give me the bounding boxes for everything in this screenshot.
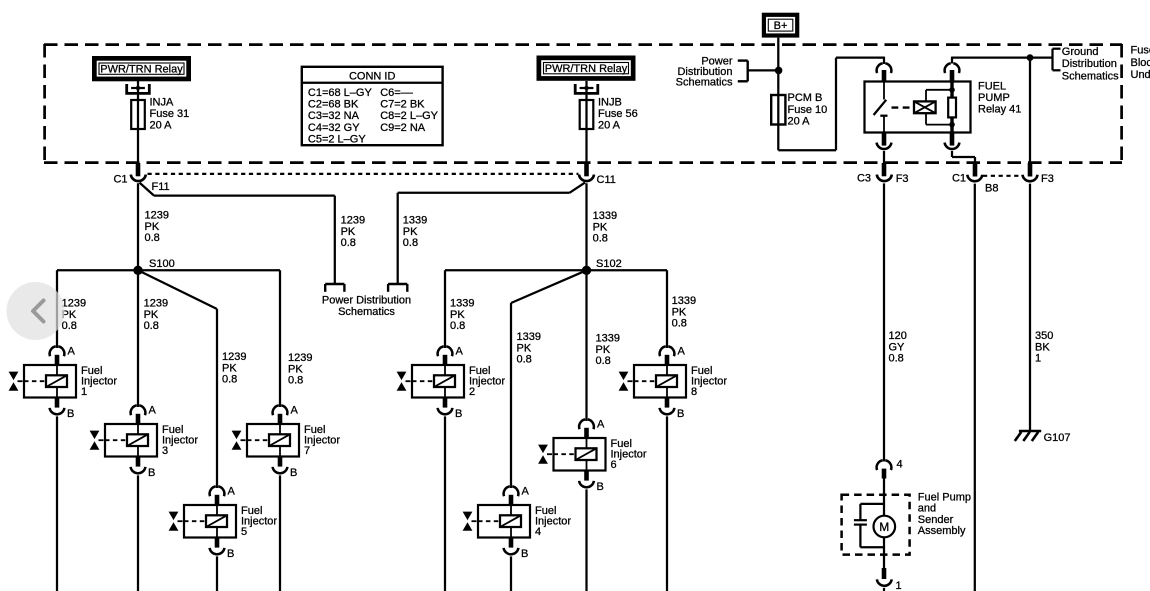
wire tap down to terminal (1339): [397, 193, 399, 284]
node: ground distribution tap: [1027, 54, 1034, 61]
svg-text:BK: BK: [1035, 341, 1050, 353]
relay pin87 stub: [950, 70, 955, 82]
svg-text:0.8: 0.8: [403, 237, 418, 249]
connector C1/F11 arc: [131, 175, 146, 182]
fuel injector 6: [538, 419, 647, 494]
svg-text:0.8: 0.8: [288, 375, 303, 387]
svg-text:1239: 1239: [144, 298, 168, 310]
svg-text:S100: S100: [149, 258, 175, 270]
svg-text:0.8: 0.8: [145, 232, 160, 244]
relay pin30 stub (bottom-left): [882, 133, 887, 146]
svg-text:C4=32 GY: C4=32 GY: [308, 122, 360, 134]
svg-text:6: 6: [611, 459, 617, 471]
svg-text:B: B: [455, 408, 462, 420]
label C11: [597, 174, 616, 186]
wire C1/B8 down to bottom: [974, 184, 976, 591]
svg-text:A: A: [597, 419, 605, 431]
label 1: [896, 580, 902, 591]
pump connector 1 stub: [882, 568, 887, 579]
svg-text:CONN ID: CONN ID: [349, 71, 396, 83]
fuel injector 7: [232, 405, 341, 480]
svg-text:0.8: 0.8: [450, 320, 465, 332]
fuse INJA Fuse 31 holder+body: [127, 84, 150, 129]
svg-text:1239: 1239: [222, 351, 246, 363]
svg-text:Fuse 10: Fuse 10: [788, 104, 828, 116]
svg-text:Fuel Pump: Fuel Pump: [918, 492, 971, 504]
fuse block dashed outline (left): [43, 44, 46, 163]
label wire 1339 PK 0.8 (tap): [403, 215, 427, 249]
label INJA Fuse 31: [150, 97, 190, 132]
wire pin85 jog to C1: [952, 151, 975, 164]
svg-text:B: B: [227, 548, 234, 560]
connector C11 arc: [579, 175, 594, 182]
wire S102 down (injector 6): [585, 270, 587, 419]
connector C3/F3 stub: [882, 163, 887, 176]
svg-text:PCM B: PCM B: [788, 92, 823, 104]
B+ terminal box: [762, 13, 800, 38]
fuse block dashed outline (top): [44, 43, 1122, 46]
relay FUEL PUMP Relay 41 box: [865, 82, 971, 133]
svg-text:PK: PK: [450, 309, 465, 321]
svg-text:C7=2 BK: C7=2 BK: [380, 99, 425, 111]
wire S102 diagonal branch: [511, 270, 587, 486]
label wire 1239 PK 0.8 (C1 main): [145, 210, 169, 244]
label G107: [1044, 432, 1071, 444]
svg-text:C1=68 L–GY: C1=68 L–GY: [308, 87, 373, 99]
svg-text:5: 5: [241, 526, 247, 538]
splice S100: [133, 266, 142, 275]
node: power distribution tap: [775, 67, 783, 75]
svg-text:1239: 1239: [62, 298, 86, 310]
svg-text:C6=––: C6=––: [380, 87, 414, 99]
svg-text:0.8: 0.8: [144, 320, 159, 332]
svg-text:1239: 1239: [341, 215, 365, 227]
connector C3/F3 arc: [877, 175, 892, 182]
svg-text:Fuse: Fuse: [1131, 45, 1150, 57]
wire C11 to S102: [585, 183, 587, 270]
wire below injector 3: [137, 475, 139, 591]
svg-text:Schematics: Schematics: [338, 306, 395, 318]
svg-text:7: 7: [304, 445, 310, 457]
svg-text:1339: 1339: [596, 333, 620, 345]
label: Power Distribution Schematics (left): [676, 55, 733, 88]
svg-text:Relay 41: Relay 41: [978, 103, 1021, 115]
wire ground distribution down: [1029, 58, 1031, 164]
svg-text:B8: B8: [985, 182, 998, 194]
svg-text:A: A: [149, 405, 157, 417]
svg-text:PK: PK: [403, 226, 418, 238]
svg-text:PUMP: PUMP: [978, 92, 1010, 104]
svg-text:S102: S102: [596, 258, 622, 270]
wire S102 right branch: [587, 270, 668, 346]
PWR/TRN Relay box (left): [92, 56, 191, 81]
svg-text:PK: PK: [145, 221, 160, 233]
pump motor: [874, 516, 896, 538]
wire below injector 5: [216, 556, 218, 591]
svg-text:and: and: [918, 503, 936, 515]
wire relay top-right to ground distribution: [952, 57, 1053, 64]
wire below pump connector 1: [883, 588, 885, 591]
svg-text:PK: PK: [341, 226, 356, 238]
wire relay2 to fuse INJB: [585, 81, 587, 164]
svg-text:A: A: [228, 486, 236, 498]
svg-text:1339: 1339: [672, 295, 696, 307]
svg-text:A: A: [522, 486, 530, 498]
label 4: [897, 458, 903, 470]
label wire 1339 (inj8): [672, 295, 696, 329]
relay pin87 feed arc: [945, 63, 960, 73]
relay coil loop wires: [926, 87, 955, 127]
svg-text:M: M: [879, 520, 889, 534]
fuel injector 4: [463, 486, 572, 561]
relay FUEL PUMP Relay 41 coil-side feed arc: [877, 63, 892, 73]
pump connector 1 arc: [877, 579, 892, 585]
svg-text:C5=2 L–GY: C5=2 L–GY: [308, 133, 366, 145]
svg-text:1: 1: [896, 580, 902, 591]
label C1 (relay control): [952, 172, 966, 184]
label F3 (ground): [1041, 173, 1054, 185]
wire below injector 8: [666, 416, 668, 591]
svg-text:8: 8: [691, 386, 697, 398]
connector F3 (ground) arc: [1022, 175, 1037, 182]
svg-text:GY: GY: [889, 341, 906, 353]
svg-text:0.8: 0.8: [341, 237, 356, 249]
fuel injector 5: [169, 486, 278, 561]
svg-text:PWR/TRN Relay: PWR/TRN Relay: [545, 63, 628, 75]
label wire 120 GY 0.8: [889, 330, 907, 364]
svg-text:Assembly: Assembly: [918, 525, 966, 537]
svg-text:4: 4: [897, 458, 903, 470]
label wire 1339 (inj4): [517, 331, 541, 365]
svg-text:1339: 1339: [517, 331, 541, 343]
svg-text:F11: F11: [152, 181, 170, 193]
terminal cup (1339 power dist): [388, 284, 407, 292]
relay pin30 connector arc: [877, 143, 892, 149]
pump connector 4 arc: [877, 460, 892, 470]
svg-text:1339: 1339: [403, 215, 427, 227]
svg-text:1339: 1339: [593, 210, 617, 222]
svg-text:C11: C11: [597, 174, 616, 186]
ground distribution schematics bracket: [1053, 49, 1061, 71]
relay switch: [874, 82, 888, 132]
wire C1 to S100: [137, 183, 139, 270]
wire F3 to G107: [1029, 184, 1031, 430]
svg-text:0.8: 0.8: [593, 233, 608, 245]
wire below injector 2: [444, 416, 446, 591]
wire C11 tap diagonal: [570, 183, 586, 193]
wire below injector 4: [510, 556, 512, 591]
svg-text:350: 350: [1035, 330, 1053, 342]
wire S100 diagonal branch: [138, 270, 217, 486]
splice S102: [582, 266, 591, 275]
svg-text:20 A: 20 A: [598, 120, 621, 132]
label wire 1339 (inj6): [596, 333, 620, 367]
connector C1/F11 stub: [136, 163, 141, 176]
svg-text:1239: 1239: [145, 210, 169, 222]
svg-text:PK: PK: [596, 344, 611, 356]
wire C11 tap horizontal: [398, 192, 570, 194]
svg-text:A: A: [678, 346, 686, 358]
label: Ground Distribution Schematics: [1062, 46, 1119, 82]
wire B+ down to fuse 10: [777, 38, 779, 151]
wire into pump assembly: [883, 479, 885, 517]
wire tap down to terminal (1239): [334, 196, 336, 284]
relay coil (box-X): [914, 101, 936, 113]
label C1 (left): [113, 173, 127, 185]
fuse block dashed outline (right): [1120, 44, 1123, 163]
wire pin30 to C3: [883, 151, 885, 164]
ground G107 symbol: [1015, 431, 1041, 441]
svg-text:PK: PK: [593, 221, 608, 233]
fuse INJB Fuse 56 holder+body: [575, 84, 598, 129]
label wire 350 BK 1: [1035, 330, 1053, 364]
svg-text:PK: PK: [144, 309, 159, 321]
wire S100 right branch: [138, 270, 280, 405]
svg-text:C3=32 NA: C3=32 NA: [308, 110, 360, 122]
svg-text:Schematics: Schematics: [1062, 70, 1119, 82]
svg-text:0.8: 0.8: [62, 320, 77, 332]
svg-text:PK: PK: [288, 363, 303, 375]
svg-text:1239: 1239: [288, 352, 312, 364]
label wire 1239 (inj3): [144, 298, 168, 332]
svg-text:4: 4: [535, 526, 541, 538]
svg-text:Ground: Ground: [1062, 46, 1099, 58]
svg-text:A: A: [68, 346, 76, 358]
fuel injector 3: [90, 405, 199, 480]
svg-text:B: B: [677, 408, 684, 420]
label S100: [149, 258, 175, 270]
svg-text:A: A: [291, 405, 299, 417]
fuel injector 8: [619, 346, 728, 421]
svg-text:20 A: 20 A: [150, 120, 173, 132]
label Fuel Pump and Sender Assembly: [918, 492, 971, 538]
label B8: [985, 182, 998, 194]
svg-text:0.8: 0.8: [596, 355, 611, 367]
label C3: [857, 172, 871, 184]
svg-text:1: 1: [1035, 353, 1041, 365]
svg-text:C9=2 NA: C9=2 NA: [380, 122, 426, 134]
label S102: [596, 258, 622, 270]
svg-text:PK: PK: [672, 306, 687, 318]
label FUEL PUMP Relay 41: [978, 81, 1021, 116]
svg-text:B: B: [67, 408, 74, 420]
svg-text:C2=68 BK: C2=68 BK: [308, 99, 359, 111]
label F11: [152, 181, 170, 193]
svg-text:0.8: 0.8: [889, 353, 904, 365]
label F3 (pump feed): [896, 173, 909, 185]
svg-text:20 A: 20 A: [788, 116, 811, 128]
svg-text:F3: F3: [896, 173, 909, 185]
power distribution schematics bracket: [738, 61, 748, 82]
wire to power distribution bracket: [748, 69, 779, 71]
svg-text:0.8: 0.8: [672, 318, 687, 330]
svg-text:C1: C1: [113, 173, 127, 185]
relay dashed actuator link: [892, 106, 914, 108]
wire below injector 6: [585, 489, 587, 591]
wire fuse10 to relay pin (down/right/up/right): [778, 57, 884, 151]
svg-text:0.8: 0.8: [517, 354, 532, 366]
fuel injector 1: [9, 346, 118, 421]
label wire 1339 (inj2): [450, 298, 474, 332]
connector C11 stub: [584, 163, 589, 176]
fuse block dashed outline (bottom): [44, 161, 1122, 164]
svg-text:PWR/TRN Relay: PWR/TRN Relay: [100, 64, 183, 76]
label wire 1239 (inj7): [288, 352, 312, 386]
fuel pump assembly dashed box: [842, 495, 910, 555]
fuse PCM B Fuse 10 20A: [771, 95, 785, 125]
svg-text:F3: F3: [1041, 173, 1054, 185]
svg-text:Block: Block: [1131, 57, 1150, 69]
svg-text:B: B: [290, 467, 297, 479]
svg-text:B: B: [597, 481, 604, 493]
connector C1/B8 stub: [973, 163, 978, 177]
svg-text:INJA: INJA: [150, 97, 175, 109]
svg-text:Fuse 56: Fuse 56: [598, 108, 638, 120]
relay pin85 stub (bottom-right): [950, 133, 955, 146]
wire C1 tap horizontal: [154, 194, 335, 196]
PWR/TRN Relay box (right): [537, 56, 636, 81]
harness dotted line C1-C11: [148, 173, 579, 175]
svg-text:C8=2 L–GY: C8=2 L–GY: [380, 110, 438, 122]
svg-text:Fuse 31: Fuse 31: [150, 108, 190, 120]
wire S100 down (injector 3): [137, 270, 139, 405]
harness dotted line B8: [983, 175, 1022, 177]
svg-text:C1: C1: [952, 172, 966, 184]
wire below injector 1: [56, 416, 58, 591]
svg-text:B: B: [148, 467, 155, 479]
label INJB Fuse 56: [598, 97, 638, 132]
relay pin86 stub: [882, 70, 887, 82]
label PCM B Fuse 10: [788, 92, 828, 127]
svg-text:1: 1: [81, 386, 87, 398]
label wire 1239 PK 0.8 (tap): [341, 215, 365, 249]
wire S102 left branch: [445, 270, 587, 346]
svg-text:B: B: [521, 548, 528, 560]
connector C1/B8 arc: [967, 175, 982, 182]
svg-text:PK: PK: [222, 362, 237, 374]
svg-text:120: 120: [889, 330, 907, 342]
ui back button overlay: [7, 282, 65, 340]
svg-text:FUEL: FUEL: [978, 81, 1006, 93]
label wire 1239 (inj5): [222, 351, 246, 385]
svg-text:G107: G107: [1044, 432, 1071, 444]
svg-text:3: 3: [162, 445, 168, 457]
relay right pin wire + resistor: [948, 82, 956, 133]
fuel injector 2: [397, 346, 506, 421]
svg-text:PK: PK: [517, 342, 532, 354]
connector F3 (ground) stub: [1028, 163, 1033, 177]
wire C3 to pump connector 4: [883, 183, 885, 461]
svg-text:INJB: INJB: [598, 97, 622, 109]
fuse block label: [1131, 45, 1150, 81]
wire S100 left branch: [57, 270, 138, 346]
wire C1 tap diagonal: [140, 183, 155, 196]
svg-text:C3: C3: [857, 172, 871, 184]
svg-text:Distribution: Distribution: [1062, 58, 1117, 70]
svg-text:Underhood: Underhood: [1131, 69, 1150, 81]
svg-text:2: 2: [469, 386, 475, 398]
svg-text:B+: B+: [774, 20, 788, 32]
svg-text:1339: 1339: [450, 298, 474, 310]
CONN ID table: [302, 67, 443, 146]
wire below injector 7: [279, 475, 281, 591]
relay pin85 connector arc: [945, 143, 960, 149]
svg-text:Sender: Sender: [918, 514, 954, 526]
label: Power Distribution Schematics (center): [322, 295, 411, 318]
svg-text:0.8: 0.8: [222, 374, 237, 386]
label wire 1239 (inj1): [62, 298, 86, 332]
svg-text:Schematics: Schematics: [676, 77, 733, 89]
wire relay1 to fuse INJA: [137, 80, 139, 164]
svg-text:A: A: [456, 346, 464, 358]
svg-text:Power Distribution: Power Distribution: [322, 295, 411, 307]
pump capacitor branch: [854, 504, 884, 547]
pump connector 4 stub: [882, 469, 887, 479]
wire pump to connector 1: [883, 537, 885, 568]
label wire 1339 PK 0.8 (C11 main): [593, 210, 617, 244]
terminal cup (1239 power dist): [325, 284, 344, 292]
